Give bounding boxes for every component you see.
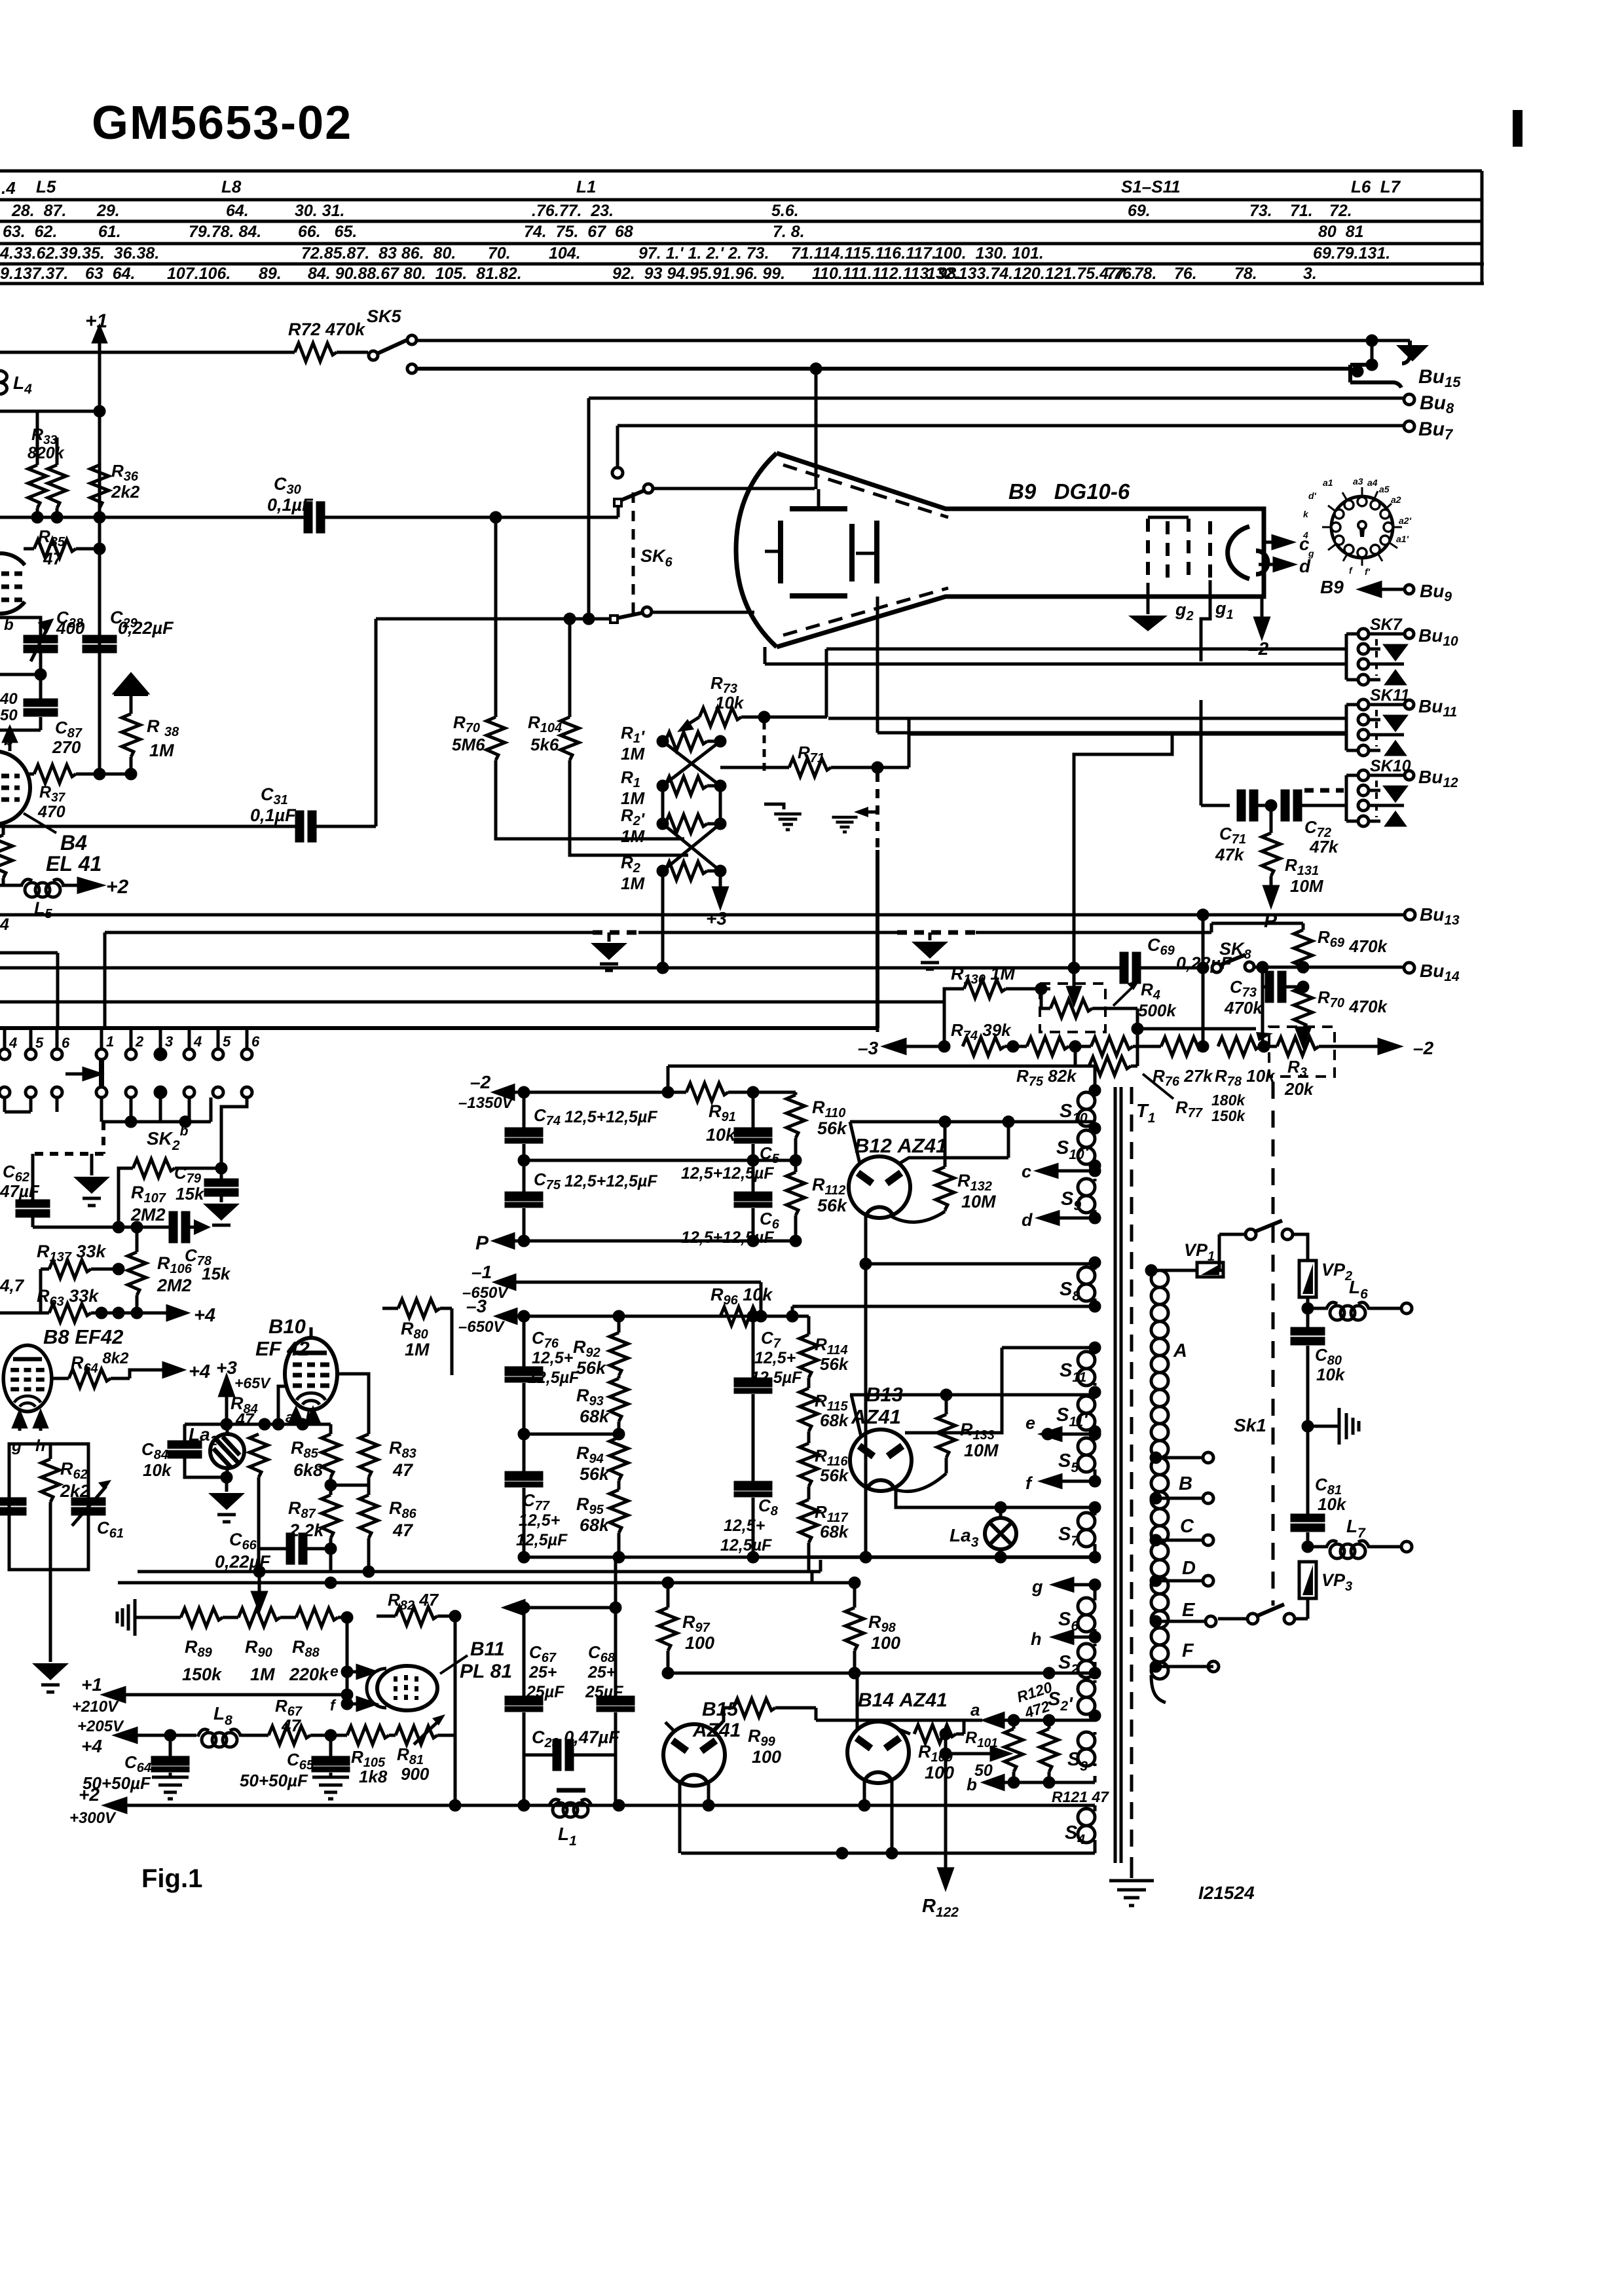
capacitor C68 25+25uF [524,1557,633,1755]
resistor R72 470k [295,343,368,361]
arrow c from S9 [1039,1165,1099,1177]
svg-text:6k8: 6k8 [293,1460,323,1480]
svg-text:B4: B4 [60,831,87,855]
B12 left anode lead [850,1122,860,1164]
svg-text:100. 130. 101.: 100. 130. 101. [934,244,1044,263]
resistor R88 220k [280,1608,352,1627]
CRT grids g2 g1 dashed [1148,519,1210,583]
T1 secondary S9 [1078,1179,1095,1213]
capacitor C7 [735,1316,771,1434]
T1 secondary S4 [1078,1809,1095,1843]
svg-text:a: a [970,1700,980,1720]
node +3 below R2 [714,871,727,906]
svg-text:e: e [330,1663,339,1680]
svg-text:61.: 61. [98,223,121,241]
capacitor C71 47k [1238,791,1276,820]
svg-text:47: 47 [392,1460,414,1480]
R101 wiper arrow [941,1748,1008,1760]
svg-text:–2: –2 [1413,1038,1434,1058]
svg-text:B9 DG10-6: B9 DG10-6 [1008,479,1130,504]
svg-text:25+: 25+ [528,1663,557,1682]
cross wiring of paraphase network [663,741,720,871]
svg-text:B12 AZ41: B12 AZ41 [855,1134,947,1157]
svg-text:56k: 56k [817,1196,848,1215]
capacitor C31 0.1uF [297,619,376,841]
T1 secondary S3 [1078,1732,1095,1766]
svg-text:10k: 10k [706,1125,737,1145]
svg-text:L6 L7: L6 L7 [1351,177,1401,196]
resistor R87 2.2k [322,1485,340,1553]
table row 4 numbers [0,244,1390,263]
svg-text:L5: L5 [36,177,56,196]
svg-text:10M: 10M [964,1441,999,1460]
node -2 -1350V [495,1086,528,1099]
svg-text:2: 2 [135,1033,144,1050]
resistor R82 47 [377,1607,460,1805]
svg-text:R121 47: R121 47 [1052,1788,1109,1805]
T1 secondary S10' [1078,1124,1099,1170]
capacitor C87 270 [0,653,56,730]
svg-text:470: 470 [37,803,65,821]
capacitor C5 [735,1092,771,1160]
svg-text:72.85.87. 83 86. 80.: 72.85.87. 83 86. 80. [301,244,456,263]
svg-text:12,5+12,5µF: 12,5+12,5µF [564,1172,657,1190]
S2 wire extension [663,1668,859,1678]
capacitor C29 0.22uF [84,636,115,652]
switch SK8 [1212,955,1414,973]
svg-text:50: 50 [0,707,18,724]
svg-text:97. 1.' 1. 2.' 2. 73.: 97. 1.' 1. 2.' 2. 73. [638,244,769,263]
thick bus SK2 top [0,850,877,1028]
coil L8 [198,1729,268,1747]
tube B11 PL81 [367,1666,437,1710]
svg-text:a3: a3 [1353,476,1363,487]
svg-text:5: 5 [35,1035,44,1051]
resistor R77 [1075,1046,1137,1075]
svg-text:B9: B9 [1320,577,1344,597]
resistor R99 100 [733,1699,816,1720]
resistor R120 472 [1040,1720,1058,1782]
resistor below B4 left edge [0,826,12,885]
svg-text:12,5µF: 12,5µF [528,1369,580,1387]
svg-text:4.33.62.39.35. 36.38.: 4.33.62.39.35. 36.38. [0,244,159,263]
B15 cathode leads [680,1782,709,1853]
B11 pin arrows e f [342,1666,375,1678]
variable capacitor C28 400 [0,618,56,661]
resistor R70 5M6 [487,517,684,839]
capacitor C64 50+50uF [152,1735,189,1799]
B10 grid bracket [278,1386,286,1424]
svg-text:Sk1: Sk1 [1234,1415,1266,1435]
resistor R89 150k [139,1608,238,1627]
svg-text:12,5µF: 12,5µF [720,1536,772,1555]
potentiometer R90 1M with wiper [238,1572,280,1627]
svg-text:SK7: SK7 [1370,616,1403,634]
svg-text:69.: 69. [1128,202,1151,220]
svg-text:92. 93 94.95.91.96. 99.: 92. 93 94.95.91.96. 99. [612,265,785,283]
wire -2 rail [519,1066,1095,1097]
T1 secondary S6 [1078,1585,1095,1632]
resistor R96 10k [720,1307,762,1325]
wire grid row of B10 [185,1420,331,1429]
svg-text:d: d [1022,1210,1033,1230]
node P rail [495,1234,800,1247]
svg-text:0,1µF: 0,1µF [250,805,297,825]
switch SK2b contact row 2 [0,1087,252,1126]
capacitor C65 50+50uF [312,1735,349,1799]
svg-text:500k: 500k [1138,1001,1177,1020]
svg-text:220k: 220k [289,1665,330,1684]
table grid lines [0,171,1484,284]
capacitor C79 15k [203,1097,247,1225]
resistor R76 27k [1161,1037,1208,1056]
dashed stub into SK10 row2 [1304,788,1344,793]
vertical x1837 [1202,915,1205,1046]
svg-text:E: E [1182,1600,1196,1621]
svg-text:R74 39k: R74 39k [951,1020,1012,1043]
svg-text:+2: +2 [79,1784,100,1805]
long wire second with grounds [105,923,1211,1027]
svg-text:20k: 20k [1284,1079,1314,1099]
resistor R2 1M [658,862,725,880]
arrow d from S9 [1040,1212,1099,1224]
svg-text:79.78. 84.: 79.78. 84. [189,223,261,241]
svg-text:–3: –3 [466,1296,487,1316]
node +3 +65V [220,1377,233,1424]
g2 lead to chassis arrow [1128,583,1168,631]
svg-text:84. 90.88.67 80. 105. 81.82.: 84. 90.88.67 80. 105. 81.82. [308,265,522,283]
svg-text:150k: 150k [182,1665,223,1684]
svg-text:–2: –2 [470,1072,491,1092]
resistor R85 6k8 [322,1424,340,1495]
T1 secondary S7 [1078,1513,1095,1547]
svg-text:100: 100 [685,1633,714,1653]
svg-text:104.: 104. [549,244,581,263]
tube B14 AZ41 [847,1722,909,1783]
B14 anode leads [857,1673,910,1734]
svg-text:B14 AZ41: B14 AZ41 [858,1689,948,1711]
svg-text:12,5µF: 12,5µF [750,1369,802,1387]
resistor R137 33k [41,1260,123,1313]
svg-text:7. 8.: 7. 8. [773,223,805,241]
arrow e from S5 [1043,1428,1099,1440]
ground mid right [1303,1408,1359,1445]
svg-text:2M2: 2M2 [157,1276,192,1295]
svg-text:1M: 1M [149,741,174,760]
svg-text:PL 81: PL 81 [460,1661,512,1682]
wires into SK11 [828,718,1346,734]
svg-text:66. 65.: 66. 65. [298,223,357,241]
capacitor C76 [506,1316,542,1434]
svg-text:77. 78.: 77. 78. [1107,265,1156,283]
T1 secondary S11' [1078,1396,1099,1436]
svg-text:12,5+12,5µF: 12,5+12,5µF [681,1228,774,1247]
chassis up-arrow over R38 [114,674,148,714]
svg-text:15k: 15k [202,1264,231,1283]
svg-text:12,5+: 12,5+ [519,1511,561,1530]
capacitor C72 47k [1282,791,1346,820]
resistor R130 1M [944,980,1050,1046]
svg-text:B13: B13 [866,1383,903,1406]
vertical from Bu8 wire down to SK6 lower region [587,398,591,619]
svg-text:a2': a2' [1399,515,1412,526]
capacitor C66 0.22uF [259,1534,331,1563]
resistor (second of pair) [48,437,66,516]
switch Sk1 lower [1218,1604,1308,1624]
resistor R73 [699,708,827,726]
svg-text:56k: 56k [820,1466,849,1485]
svg-text:R137 33k: R137 33k [37,1242,107,1264]
svg-text:12,5+12,5µF: 12,5+12,5µF [681,1164,774,1183]
wire lower throw to Bu15 sleeve [407,360,1401,388]
svg-text:50+50µF: 50+50µF [240,1771,308,1790]
resistor R1 1M [658,777,725,795]
svg-text:900: 900 [401,1764,430,1784]
svg-text:47: 47 [281,1716,301,1735]
svg-text:SK10: SK10 [1370,757,1411,775]
svg-text:a1: a1 [1323,477,1333,488]
resistor R80 1M [382,1299,452,1375]
ground arrow mid2 [912,932,948,969]
svg-text:F: F [1182,1640,1194,1661]
svg-text:0,1µF: 0,1µF [267,495,314,515]
ground arrow mid1 [591,932,627,970]
short wire stub left [0,953,58,1027]
svg-text:b: b [4,616,14,634]
svg-text:4: 4 [9,1035,17,1051]
svg-text:74. 75. 67 68: 74. 75. 67 68 [524,223,633,241]
svg-text:5.6.: 5.6. [771,202,799,220]
svg-text:3: 3 [165,1033,173,1050]
vertical net to Bu14 from bus [1074,733,1172,968]
svg-text:5M6: 5M6 [452,735,485,754]
svg-text:107.106.: 107.106. [167,265,231,283]
resistor R95 68k [610,1490,628,1557]
svg-text:47: 47 [43,549,63,568]
wire x505 to bus [329,1549,333,1572]
svg-text:100: 100 [752,1747,781,1767]
vertical from Bu7 wire to SK6 upper throw [612,426,623,478]
S8 bottom return [788,1301,1099,1321]
wire F tap to Sk1 lower [1208,1665,1213,1668]
svg-text:1k8: 1k8 [359,1767,388,1786]
dashed linkage of SK2 [33,1122,103,1154]
svg-text:5k6: 5k6 [530,735,559,754]
plate connection brackets [765,489,877,553]
wire S7 top [896,1490,1099,1513]
B13 cathode down [864,1488,868,1557]
dashed section of x1340 with ground [876,773,879,1032]
svg-text:80 81: 80 81 [1318,223,1364,241]
resistor R35 47 [24,540,104,558]
tube B13 AZ41 [850,1429,912,1491]
svg-text:47k: 47k [1215,845,1245,864]
resistor R36 2k2 [90,465,109,516]
svg-text:68k: 68k [580,1407,610,1426]
svg-text:132.133.74.120.121.75.4.76.: 132.133.74.120.121.75.4.76. [927,265,1136,283]
svg-text:47: 47 [392,1521,414,1540]
resistor R70b 470k [1294,987,1312,1045]
svg-text:28. 87.: 28. 87. [11,202,66,220]
svg-text:e: e [1025,1413,1035,1433]
resistor R37 470 [29,765,136,783]
svg-text:30. 31.: 30. 31. [295,202,344,220]
svg-text:–1: –1 [471,1262,492,1282]
ground below box [32,1570,69,1692]
svg-text:76.: 76. [1174,265,1197,283]
arrow g from S6 [1054,1579,1099,1591]
resistor R131 10M [1262,805,1280,905]
wire row 2378 [519,1553,809,1562]
svg-text:B11: B11 [470,1638,505,1660]
VP2 [1299,1261,1316,1313]
svg-text:1M: 1M [250,1665,275,1684]
T1 secondary S8 [1078,1267,1095,1301]
resistor R115 68k [800,1388,818,1443]
svg-text:EF 42: EF 42 [255,1337,310,1360]
svg-text:R76 27k: R76 27k [1153,1066,1213,1089]
wire a-node [816,1719,982,1722]
switch SK6 upper arm [614,484,815,506]
coil L1 on bus [549,1790,592,1817]
svg-text:a2: a2 [1391,494,1401,505]
coil L5 with +2 arrow [0,879,101,897]
long wire to SK8/Bu14 [0,963,1079,972]
resistor R71 [720,758,909,777]
vertical from CRT bottom to SK11 wire [877,597,1346,733]
svg-text:180k: 180k [1211,1092,1246,1109]
svg-text:4: 4 [0,915,9,934]
node +1 [94,327,105,774]
resistor R75b [1091,1037,1161,1056]
capacitor C84 10k [169,1424,227,1477]
node +2 +300V bus [106,1799,1095,1812]
svg-text:3.: 3. [1303,265,1317,283]
wire row y=790 with C30 [0,513,308,522]
resistor R84 47 [249,1434,268,1572]
capacitor C69 0.22uF [1074,953,1208,982]
resistor R67 47 [268,1726,347,1744]
potentiometer R101 50 [1005,1716,1023,1782]
svg-text:64.: 64. [226,202,249,220]
svg-text:+4: +4 [81,1736,102,1756]
svg-text:R63 33k: R63 33k [37,1286,100,1309]
jack bank SK10 [1346,770,1414,826]
svg-text:B8 EF42: B8 EF42 [43,1325,123,1348]
node -1 -650V [496,1276,761,1316]
svg-text:9.137.37.: 9.137.37. [0,265,68,283]
wire VP1 to Sk1 [1219,1234,1223,1270]
svg-text:270: 270 [52,737,81,757]
resistor R93 68k [610,1378,628,1434]
svg-text:12,5+: 12,5+ [754,1349,796,1367]
svg-text:1M: 1M [621,744,645,764]
table row 5 numbers [0,265,1317,283]
capacitor C23 0.47uF [524,1741,616,1805]
node +4 arrow [157,1306,186,1319]
wire y=962 lower [376,614,610,623]
capacitor C in box left [0,1499,25,1514]
wire mid rail [519,1156,800,1165]
svg-text:71.: 71. [1290,202,1313,220]
potentiometer R1' 1M [658,732,725,750]
resistor R64 8k2 [52,1369,164,1388]
potentiometer R3 20k in dashed box [1269,1027,1335,1077]
coil L7 [1308,1541,1412,1558]
svg-text:+4: +4 [194,1305,215,1326]
-2 arrow right [1335,1040,1399,1053]
svg-text:c: c [1022,1162,1031,1181]
svg-text:S1–S11: S1–S11 [1121,177,1181,196]
CRT dashed inner slopes [783,465,948,635]
svg-text:10M: 10M [1290,876,1324,896]
svg-text:63. 62.: 63. 62. [3,223,57,241]
wire S10/S10' junction row [850,1117,1095,1126]
long wire to Bu13 [0,910,1415,920]
T1 primary taps [1151,1452,1219,1672]
svg-text:D: D [1182,1558,1196,1579]
svg-text:68k: 68k [820,1522,849,1541]
svg-text:a4: a4 [1367,477,1378,488]
resistor R122 lead [939,1734,952,1887]
resistor R104 5k6 [561,619,688,855]
node +1 +210V wire [105,1617,352,1701]
tube B8 EF42 [3,1345,52,1411]
capacitor C8 [735,1434,771,1557]
svg-text:+65V: +65V [234,1374,271,1392]
svg-text:56k: 56k [820,1354,849,1374]
resistor R83 47 [331,1374,378,1485]
B14 cathode leads [864,1780,896,1858]
wire S8 top [866,1258,1099,1267]
wire S11/S11' junction [850,1388,1099,1399]
resistor R92 56k [610,1316,628,1378]
resistor R78 10k [1218,1037,1269,1056]
svg-text:100: 100 [871,1633,900,1653]
svg-text:R96 10k: R96 10k [710,1285,773,1308]
svg-text:25+: 25+ [587,1663,616,1682]
svg-text:1M: 1M [621,826,645,846]
wire y1530 [0,1001,944,1004]
svg-text:47µF: 47µF [0,1181,40,1201]
R4 right lead down and wire to R3 wiper [1133,1008,1273,1066]
svg-text:56k: 56k [576,1358,607,1378]
wire R2 left down to long wire [661,871,665,968]
arrow h from S6 [1054,1631,1099,1643]
capacitor C80 10k [1292,1308,1323,1426]
capacitor C81 10k [1292,1426,1323,1551]
Bu9 terminal with arrow [1361,583,1414,596]
tube B10 EF42 [285,1327,337,1410]
svg-text:5: 5 [223,1033,231,1050]
wiper feed arrow into R4 [1068,968,1080,1003]
svg-text:29.: 29. [96,202,120,220]
ground small near linkage [764,804,802,830]
box with R62 C61 [9,1444,88,1570]
svg-text:b: b [967,1775,977,1794]
svg-text:f': f' [1365,566,1371,577]
tube B3 partial (left edge) [0,553,25,614]
svg-text:GM5653-02: GM5653-02 [92,97,352,149]
svg-text:4: 4 [193,1033,202,1050]
svg-text:820k: 820k [28,444,65,462]
svg-text:68k: 68k [580,1515,610,1535]
resistor R100 100 [914,1720,964,1743]
ground under La2 [208,1473,245,1522]
svg-text:1: 1 [106,1033,114,1050]
chassis arrow at Bu15 [1396,345,1429,361]
page number mark I [1513,110,1522,147]
